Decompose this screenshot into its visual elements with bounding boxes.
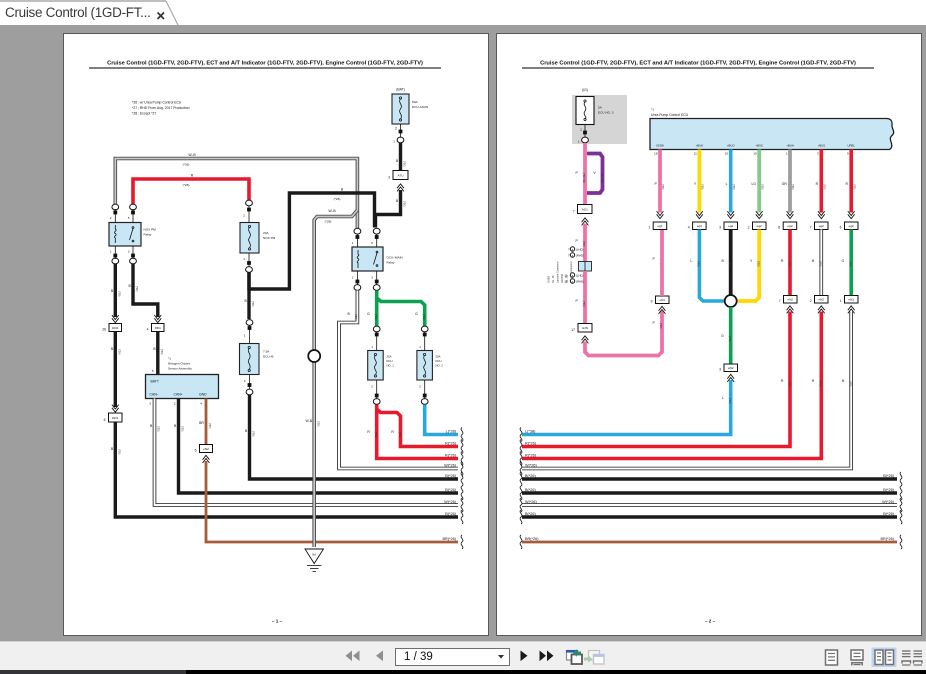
wire P from IG fuse down to AG1	[576, 143, 586, 205]
svg-text:eN2: eN2	[818, 298, 824, 302]
page number 2	[705, 619, 716, 624]
bus continuation B(*26) at right edge	[445, 472, 463, 486]
svg-text:(*26): (*26)	[251, 301, 254, 307]
svg-text:R: R	[391, 430, 394, 434]
junction connector 3 eg2	[719, 222, 737, 230]
svg-text:18: 18	[654, 152, 658, 156]
svg-text:P: P	[576, 299, 579, 303]
notes block	[132, 101, 190, 116]
svg-text:20A: 20A	[263, 231, 269, 235]
svg-text:4: 4	[200, 402, 202, 406]
svg-text:GHBA: GHBA	[548, 276, 551, 283]
svg-text:(*26): (*26)	[354, 314, 357, 320]
svg-text:(BAT): (BAT)	[396, 88, 405, 92]
svg-text:Junction Connector: Junction Connector	[557, 261, 560, 283]
svg-text:(*26): (*26)	[403, 201, 406, 207]
wire P from AG1 to junction connector block	[576, 224, 586, 263]
svg-text:DD2: DD2	[112, 326, 118, 330]
svg-text:W(*26): W(*26)	[525, 463, 538, 467]
svg-text:eg2: eg2	[728, 224, 733, 228]
wire W-B from NOX PM relay pin 2 to DCU-MAIN relay pin 1	[115, 153, 357, 228]
svg-text:25A: 25A	[387, 355, 392, 359]
svg-text:2: 2	[395, 127, 397, 131]
svg-text:L: L	[690, 259, 692, 263]
svg-text:7.5A: 7.5A	[263, 350, 270, 354]
svg-text:3: 3	[388, 176, 390, 180]
junction connector 7 AG1	[573, 205, 592, 226]
svg-text:1: 1	[110, 250, 112, 254]
svg-text:R: R	[846, 182, 849, 186]
svg-text:1: 1	[419, 345, 421, 349]
svg-text:G: G	[721, 334, 724, 338]
svg-text:(*38): (*38)	[661, 184, 664, 190]
fuse 25A DCU NO.1	[368, 326, 395, 404]
svg-text:L: L	[726, 182, 728, 186]
svg-text:Urea Pump Control ECU: Urea Pump Control ECU	[651, 113, 689, 117]
svg-text:P: P	[653, 321, 656, 325]
svg-text:(*26): (*26)	[135, 286, 138, 292]
svg-text:(*26): (*26)	[118, 449, 121, 455]
junction connector 2 eg2	[748, 222, 766, 230]
svg-text:(*26): (*26)	[334, 197, 341, 201]
wire W-B (*28) branch to ground	[305, 209, 357, 547]
wire B from BAT fuse to junction A7U	[399, 143, 402, 170]
svg-text:DD1: DD1	[112, 416, 118, 420]
svg-text:B(*26): B(*26)	[525, 512, 536, 516]
svg-text:B(*26): B(*26)	[445, 488, 456, 492]
svg-text:NO. 1: NO. 1	[387, 364, 395, 368]
svg-text:P: P	[653, 257, 656, 261]
ground NA	[305, 549, 324, 572]
svg-text:(*26): (*26)	[183, 183, 190, 187]
svg-text:CAN–: CAN–	[150, 393, 159, 397]
bus continuation W(*26) at right edge	[444, 462, 463, 476]
svg-text:(*26): (*26)	[157, 426, 160, 432]
svg-text:No. 18: No. 18	[552, 275, 555, 283]
pin stems	[584, 125, 586, 138]
svg-text:(*38): (*38)	[852, 184, 855, 190]
svg-text:(*38): (*38)	[819, 261, 822, 267]
svg-text:B(*26): B(*26)	[445, 512, 456, 516]
connector node above 7.5A DCU-B fuse	[244, 320, 253, 338]
fuse 20A NOX PM	[240, 223, 276, 265]
wire L from eN2 to L bus	[522, 380, 731, 435]
svg-text:6: 6	[104, 418, 106, 422]
svg-text:3: 3	[149, 402, 151, 406]
svg-text:(*28): (*28)	[325, 220, 332, 224]
svg-text:(*26): (*26)	[374, 314, 377, 320]
svg-text:(*26): (*26)	[118, 291, 121, 297]
svg-text:eg2: eg2	[819, 224, 824, 228]
svg-text:(RHD): (RHD)	[576, 280, 584, 284]
svg-text:UREL: UREL	[847, 144, 855, 148]
wire R from NOX PM relay pin 5 to 20A NOX PM fuse	[133, 174, 249, 205]
bus continuation L(*28) at right edge	[446, 428, 463, 442]
svg-text:1: 1	[578, 140, 580, 144]
svg-text:R(*26): R(*26)	[525, 453, 537, 457]
wire P from eg1 to eN1	[660, 230, 664, 297]
wire L from DCU NO.2 fuse to L bus	[425, 405, 458, 435]
svg-text:B(*26): B(*26)	[883, 474, 894, 478]
svg-text:DD1: DD1	[155, 326, 161, 330]
svg-text:BATT: BATT	[151, 380, 159, 384]
svg-text:NOX PM: NOX PM	[144, 228, 157, 232]
svg-text:(*38): (*38)	[697, 261, 700, 267]
svg-text:eN1: eN1	[659, 298, 665, 302]
node splice of +BU wires	[725, 295, 737, 307]
svg-text:(*26): (*26)	[181, 426, 184, 432]
svg-text:W-B: W-B	[305, 419, 312, 423]
svg-text:+BUS: +BUS	[756, 144, 764, 148]
svg-text:1: 1	[393, 140, 395, 144]
svg-text:DCU–B: DCU–B	[263, 355, 274, 359]
junction connector 6 DD1	[104, 413, 122, 422]
wire GR from ECU pin at x=789	[782, 150, 794, 219]
svg-text:R(*26): R(*26)	[525, 441, 537, 445]
svg-text:R: R	[816, 182, 819, 186]
svg-text:7: 7	[568, 248, 570, 252]
svg-text:*26 : w/ Urea Pump Control ECU: *26 : w/ Urea Pump Control ECU	[132, 101, 182, 105]
svg-text:(*38): (*38)	[728, 261, 731, 267]
svg-text:(*26): (*26)	[316, 421, 319, 427]
svg-text:19: 19	[753, 152, 757, 156]
bus continuation R(*26) at right edge	[445, 440, 463, 454]
svg-text:BR(*26): BR(*26)	[525, 537, 539, 541]
svg-text:NOX PM: NOX PM	[263, 236, 276, 240]
svg-text:5: 5	[128, 216, 130, 220]
svg-text:eg2: eg2	[849, 224, 854, 228]
svg-text:(LHD): (LHD)	[576, 274, 584, 278]
junction connector 8 eg2	[778, 222, 796, 230]
bus continuation R(*26) at right edge	[445, 452, 463, 466]
svg-text:BR: BR	[199, 421, 204, 425]
ECU Urea Pump Control	[650, 108, 894, 156]
wire B from sensor CAN+ to B bus	[174, 399, 458, 494]
svg-text:W(*26): W(*26)	[882, 500, 895, 504]
svg-text:Relay: Relay	[144, 233, 152, 237]
wire B from eg2-3 to splice node	[722, 230, 732, 296]
svg-text:eN2: eN2	[203, 447, 209, 451]
svg-text:eN2: eN2	[728, 366, 734, 370]
bus B(*26) across page	[520, 486, 902, 500]
svg-text:1: 1	[371, 345, 373, 349]
bus continuation R(*26) at left edge	[520, 452, 537, 466]
svg-text:3: 3	[719, 226, 721, 230]
bus continuation R(*26) at left edge	[520, 440, 537, 454]
svg-text:B: B	[174, 424, 177, 428]
page 1 header title	[89, 61, 441, 68]
svg-text:1: 1	[648, 226, 650, 230]
svg-text:G/W: G/W	[582, 326, 588, 330]
svg-text:B: B	[245, 429, 248, 433]
svg-text:2: 2	[817, 152, 819, 156]
svg-text:eg1: eg1	[657, 224, 662, 228]
svg-text:2: 2	[352, 276, 354, 280]
bus continuation L(*38) at left edge	[520, 428, 536, 442]
svg-text:10: 10	[564, 274, 568, 278]
svg-text:(*38): (*38)	[728, 398, 731, 404]
svg-text:(*26): (*26)	[398, 432, 401, 438]
svg-text:6: 6	[840, 226, 842, 230]
fuse 50A DCU-MAIN (BAT)	[392, 88, 428, 125]
page number 1	[272, 619, 283, 624]
wire R from DCU NO.1 fuse to R buses	[367, 405, 458, 459]
svg-text:(*26): (*26)	[403, 161, 406, 167]
svg-text:GR: GR	[782, 182, 788, 186]
svg-text:B: B	[842, 379, 845, 383]
svg-text:ECU NO. 3: ECU NO. 3	[598, 111, 614, 115]
svg-text:+BUH: +BUH	[696, 144, 704, 148]
svg-text:(*38): (*38)	[728, 336, 731, 342]
wire B from DCU-B fuse to B bus	[245, 395, 458, 479]
svg-text:CAN+: CAN+	[174, 393, 183, 397]
svg-text:(LHD): (LHD)	[576, 248, 584, 252]
junction connector 3 eN2 on G wire	[719, 364, 737, 382]
pin 2 of 5A fuse	[580, 128, 587, 135]
ECU Nitrogen Oxides Sensor Assembly	[146, 357, 219, 406]
wire W from eg2-7 to eN2	[812, 230, 822, 296]
bus continuation W(*26) at right edge	[444, 498, 463, 512]
svg-text:(*26): (*26)	[422, 314, 425, 320]
svg-text:B: B	[396, 159, 399, 163]
svg-text:7: 7	[573, 210, 575, 214]
svg-text:5: 5	[195, 449, 197, 453]
svg-text:(*26): (*26)	[160, 349, 163, 355]
wire G from DCU-MAIN relay pin 3 to DCU fuses	[367, 291, 425, 327]
pin 2 of DCU-MAIN fuse	[395, 127, 402, 134]
svg-text:(*38): (*38)	[701, 184, 704, 190]
svg-text:*27 : RHD From Aug. 2017 Prod: *27 : RHD From Aug. 2017 Production	[132, 106, 190, 110]
connector node 1 on BAT wire	[393, 137, 404, 143]
svg-text:W(*26): W(*26)	[525, 500, 538, 504]
svg-text:(*36 *38): (*36 *38)	[582, 173, 585, 183]
svg-text:B: B	[245, 299, 248, 303]
svg-text:B: B	[812, 259, 815, 263]
svg-text:Y: Y	[750, 259, 753, 263]
svg-text:1: 1	[786, 152, 788, 156]
connector node below 20A fuse	[246, 267, 253, 273]
wire W from DCU-MAIN relay pin 2 to W bus	[339, 291, 458, 469]
svg-text:BR(*26): BR(*26)	[880, 537, 894, 541]
svg-text:4: 4	[147, 328, 149, 332]
svg-text:2: 2	[110, 216, 112, 220]
junction connector 7 eg2	[810, 222, 828, 230]
svg-text:*1: *1	[168, 357, 171, 361]
junction connector 17 G/W	[571, 324, 592, 344]
svg-text:– 2 –: – 2 –	[705, 619, 716, 624]
svg-text:P: P	[655, 182, 658, 186]
svg-text:26: 26	[102, 328, 106, 332]
junction connector 1 eN1 on G wire	[840, 296, 858, 314]
svg-text:+BUO: +BUO	[727, 144, 736, 148]
wire Y from ECU pin at x=698.4	[694, 150, 704, 219]
svg-text:B: B	[722, 259, 725, 263]
junction connector No.18 No.28 block	[579, 262, 592, 272]
bus W(*26) across page	[520, 498, 902, 512]
fuse 7.5A DCU-B	[240, 344, 274, 387]
svg-text:V: V	[594, 171, 597, 175]
svg-text:eg2: eg2	[697, 224, 702, 228]
svg-text:(*26): (*26)	[374, 432, 377, 438]
svg-text:B: B	[150, 424, 153, 428]
svg-text:(*26): (*26)	[252, 431, 255, 437]
wire R from ECU pin at x=850.2	[846, 150, 856, 219]
svg-text:P: P	[576, 239, 579, 243]
svg-text:(*38): (*38)	[791, 184, 794, 190]
svg-text:B(*26): B(*26)	[525, 474, 536, 478]
svg-text:LG: LG	[751, 182, 756, 186]
svg-text:7: 7	[568, 254, 570, 258]
svg-text:R(*26): R(*26)	[445, 441, 457, 445]
junction connector 7 eN2 on R wire	[779, 296, 797, 314]
svg-text:2: 2	[419, 385, 421, 389]
svg-text:(*38): (*38)	[819, 381, 822, 387]
svg-text:BR(*26): BR(*26)	[442, 537, 456, 541]
bus continuation B(*26) at right edge	[445, 486, 463, 500]
svg-text:G: G	[367, 312, 370, 316]
svg-text:NA: NA	[312, 553, 316, 557]
page 2 header title	[522, 61, 874, 68]
svg-text:(*26): (*26)	[208, 423, 211, 429]
svg-text:9: 9	[847, 152, 849, 156]
power source block (IG)	[572, 88, 627, 144]
svg-text:8: 8	[778, 226, 780, 230]
svg-text:B: B	[341, 188, 344, 192]
svg-text:NO. 2: NO. 2	[436, 364, 444, 368]
svg-text:W–B: W–B	[188, 153, 196, 157]
node splice on W-B ground line	[308, 350, 320, 362]
svg-text:(*38): (*38)	[788, 381, 791, 387]
svg-text:Cruise Control (1GD-FTV, 2GD-F: Cruise Control (1GD-FTV, 2GD-FTV), ECT a…	[107, 61, 423, 67]
svg-text:B: B	[111, 289, 114, 293]
svg-text:B: B	[348, 312, 351, 316]
wire R from ECU pin at x=820.3	[816, 150, 826, 219]
wire G from splice to eN2	[721, 307, 731, 364]
svg-text:G: G	[415, 312, 418, 316]
svg-text:R: R	[367, 430, 370, 434]
svg-text:DCU–MAIN: DCU–MAIN	[412, 105, 428, 109]
wire B from NOX PM relay pin 3 to sensor BATT pin	[129, 264, 162, 323]
junction connector 2 eN2 on W wire	[810, 296, 828, 314]
svg-text:1: 1	[840, 299, 842, 303]
svg-text:DCU: DCU	[436, 359, 442, 363]
svg-text:(*38): (*38)	[788, 261, 791, 267]
wire P from ECU pin at x=659	[655, 150, 665, 219]
wire W to W bus	[522, 312, 852, 469]
svg-text:B: B	[153, 347, 156, 351]
svg-text:7: 7	[779, 299, 781, 303]
svg-text:(*38): (*38)	[849, 261, 852, 267]
svg-text:(*38): (*38)	[732, 184, 735, 190]
svg-text:Cruise Control (1GD-FTV, 2GD-F: Cruise Control (1GD-FTV, 2GD-FTV), ECT a…	[540, 61, 856, 67]
wire BR from sensor GND to BR bus	[199, 399, 211, 445]
svg-text:R: R	[191, 174, 194, 178]
svg-text:3: 3	[719, 368, 721, 372]
connector node below 7.5A DCU-B fuse	[246, 389, 253, 395]
svg-text:B(*26): B(*26)	[525, 488, 536, 492]
svg-text:Sensor Assembly: Sensor Assembly	[168, 367, 192, 371]
svg-text:eN2: eN2	[787, 298, 793, 302]
svg-text:2: 2	[371, 385, 373, 389]
svg-text:10: 10	[564, 280, 568, 284]
svg-text:B(*26): B(*26)	[883, 488, 894, 492]
svg-text:L: L	[722, 396, 724, 400]
svg-text:17: 17	[571, 328, 575, 332]
svg-text:R: R	[812, 379, 815, 383]
wire V loop detour	[587, 154, 603, 194]
svg-text:(*38): (*38)	[849, 381, 852, 387]
svg-text:10: 10	[725, 152, 729, 156]
svg-text:(*36 *38): (*36 *38)	[600, 173, 603, 183]
wire LG from ECU pin at x=758.2	[751, 150, 763, 219]
junction connector 26 on left B wire	[102, 324, 121, 332]
svg-text:B: B	[396, 199, 399, 203]
svg-text:B(*26): B(*26)	[883, 512, 894, 516]
wire R from eg2-8 to eN2	[781, 230, 791, 296]
svg-text:eg2: eg2	[787, 224, 792, 228]
svg-text:(RHD): (RHD)	[576, 254, 584, 258]
svg-text:2: 2	[174, 402, 176, 406]
svg-text:L(*38): L(*38)	[525, 429, 536, 433]
svg-text:7: 7	[810, 226, 812, 230]
bus B(*26) across page	[520, 472, 902, 486]
junction connector 1 eg1	[648, 222, 666, 230]
wire L from ECU pin at x=729.7	[726, 150, 735, 219]
fuse 5A ECU NO.3	[576, 97, 614, 125]
wire R to R bus upper	[522, 312, 791, 447]
svg-text:Nitrogen Oxides: Nitrogen Oxides	[168, 362, 191, 366]
svg-text:(*38): (*38)	[582, 241, 585, 247]
svg-text:IGSW: IGSW	[656, 144, 664, 148]
svg-text:eN1: eN1	[848, 298, 854, 302]
svg-text:2: 2	[580, 128, 582, 132]
junction connector 3 A7U	[388, 171, 408, 192]
svg-text:2: 2	[748, 226, 750, 230]
svg-text:R: R	[781, 259, 784, 263]
svg-text:R: R	[781, 379, 784, 383]
svg-text:+BUS: +BUS	[818, 144, 826, 148]
junction connector 9 eN1 on P wire	[651, 257, 669, 328]
svg-text:20A: 20A	[436, 355, 441, 359]
wire G from eg2-6 to eN1	[842, 230, 852, 296]
svg-text:2: 2	[244, 379, 246, 383]
svg-text:GND: GND	[199, 393, 207, 397]
svg-text:Y: Y	[694, 182, 697, 186]
svg-text:1: 1	[244, 334, 246, 338]
svg-text:B: B	[129, 284, 132, 288]
svg-text:G: G	[842, 259, 845, 263]
bus continuation B(*26) at right edge	[445, 510, 463, 524]
fuse 20A DCU NO.2	[417, 326, 443, 404]
svg-text:2: 2	[243, 214, 245, 218]
svg-text:(*38): (*38)	[760, 184, 763, 190]
svg-text:L(*28): L(*28)	[446, 429, 457, 433]
svg-text:W–B: W–B	[328, 209, 336, 213]
svg-text:P: P	[576, 171, 579, 175]
svg-text:(*38): (*38)	[823, 184, 826, 190]
relay NOX PM	[109, 204, 156, 264]
svg-text:(*38): (*38)	[757, 261, 760, 267]
wire P from junction block to G/W connector	[576, 271, 586, 324]
svg-text:B(*26): B(*26)	[445, 474, 456, 478]
relay DCU-MAIN	[352, 228, 403, 290]
svg-text:W(*26): W(*26)	[444, 500, 457, 504]
svg-text:A7U: A7U	[397, 173, 403, 177]
svg-text:(*26): (*26)	[183, 163, 190, 167]
wire B from A7U down to DCU-MAIN relay pin 5	[376, 159, 406, 227]
svg-text:(*26): (*26)	[118, 349, 121, 355]
wire P U-turn to eg1 chain	[585, 311, 662, 356]
